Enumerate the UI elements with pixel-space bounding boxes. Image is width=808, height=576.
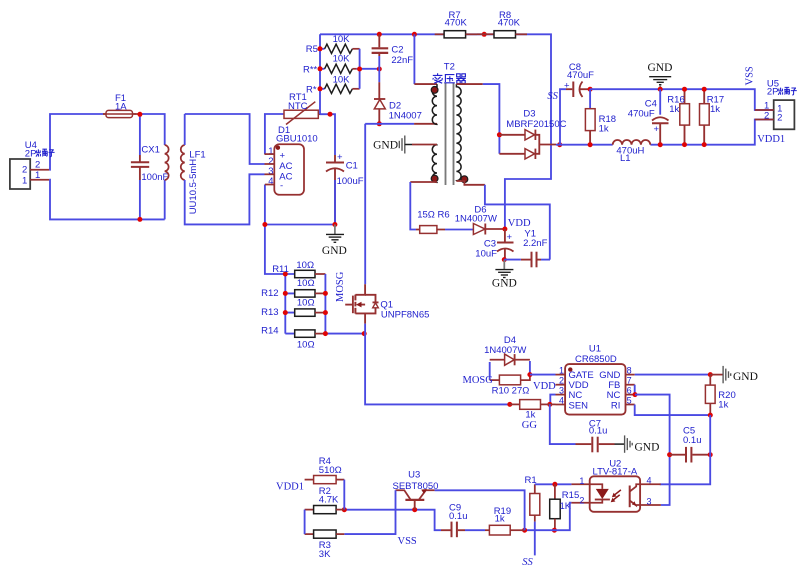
- net label VDD at U1 pin2: [533, 381, 556, 392]
- junction R14 right: [323, 331, 328, 336]
- junction R20 bottom: [708, 413, 713, 418]
- svg-text:U1: U1: [589, 344, 601, 355]
- svg-text:4: 4: [559, 396, 564, 406]
- R5/R**/R* divider left rail wire: [320, 34, 325, 114]
- junction D3 anodes: [497, 132, 502, 137]
- svg-text:+: +: [337, 152, 343, 163]
- resistor R3 3K: [305, 530, 345, 560]
- resistor R11 10Ω: [272, 260, 325, 278]
- capacitor C7 0.1u: [576, 418, 615, 452]
- wire output top rail: [590, 89, 774, 110]
- svg-text:2: 2: [579, 495, 584, 505]
- junction R16 bottom: [682, 142, 687, 147]
- svg-text:1N4007: 1N4007: [389, 110, 422, 121]
- capacitor C1: [326, 152, 364, 225]
- capacitor C5 0.1u: [670, 426, 711, 463]
- label U5 chinese 2P端子: [767, 87, 797, 98]
- svg-text:MOSG: MOSG: [463, 375, 494, 386]
- svg-text:22nF: 22nF: [391, 55, 413, 66]
- svg-text:1k: 1k: [495, 514, 505, 525]
- svg-text:1A: 1A: [115, 101, 127, 112]
- capacitor C2 22nF: [372, 34, 414, 69]
- svg-text:470uF: 470uF: [628, 108, 655, 119]
- svg-text:10Ω: 10Ω: [297, 278, 315, 289]
- svg-text:1N4007W: 1N4007W: [455, 214, 497, 225]
- wire RI net down to U2 pin4: [660, 415, 711, 484]
- capacitor C4 470uF: [628, 89, 669, 145]
- capacitor C9 0.1u: [441, 502, 485, 537]
- wire D2 bottom to Q1 drain and T2 primary: [365, 124, 414, 284]
- svg-text:3: 3: [647, 497, 652, 507]
- junction R1/R15 top: [552, 482, 557, 487]
- capacitor CX1: [131, 114, 169, 219]
- bridge rectifier D1 GBU1010: [265, 125, 318, 195]
- svg-text:GND: GND: [733, 371, 758, 383]
- ground under C1: [322, 225, 347, 258]
- ground top output: [648, 62, 673, 89]
- svg-text:UU10.5-5mH: UU10.5-5mH: [188, 159, 199, 215]
- junction C1 bottom: [332, 222, 337, 227]
- svg-text:R10 27Ω: R10 27Ω: [492, 386, 530, 397]
- diode D2 1N4007: [374, 69, 422, 124]
- svg-text:510Ω: 510Ω: [319, 465, 342, 476]
- wire RT1 to C1 top: [320, 114, 335, 155]
- svg-text:VSS: VSS: [398, 536, 417, 547]
- svg-text:MOSG: MOSG: [335, 271, 346, 302]
- wire U1 pin5 to R20 bottom: [635, 405, 711, 416]
- wire U3 emitter to R19 node: [435, 490, 525, 530]
- svg-text:7: 7: [627, 376, 632, 386]
- wire top rail: [320, 34, 551, 229]
- wire U4 loop: [49, 114, 164, 219]
- resistor R1: [525, 475, 540, 521]
- resistor R2 4.7K: [305, 486, 345, 514]
- svg-text:NC: NC: [569, 390, 583, 401]
- svg-text:+: +: [507, 232, 513, 243]
- wire to U1 pin1: [530, 374, 556, 376]
- svg-text:UNPF8N65: UNPF8N65: [381, 310, 430, 321]
- svg-text:100nF: 100nF: [141, 172, 168, 183]
- svg-text:3K: 3K: [319, 549, 331, 560]
- svg-text:0.1u: 0.1u: [683, 435, 702, 446]
- svg-text:10K: 10K: [333, 75, 351, 86]
- svg-text:R13: R13: [261, 307, 278, 318]
- svg-text:1N4007W: 1N4007W: [484, 345, 526, 356]
- wire T2 secondary top to D3: [456, 84, 499, 154]
- svg-text:U3: U3: [408, 469, 420, 480]
- svg-text:1: 1: [579, 476, 584, 486]
- fuse F1: [103, 93, 140, 118]
- inductor L1 470uH: [613, 140, 651, 164]
- diode D4 1N4007W: [484, 335, 530, 380]
- svg-text:470K: 470K: [445, 17, 468, 28]
- svg-text:GND: GND: [322, 245, 347, 257]
- svg-text:D3: D3: [523, 108, 535, 119]
- wire U3 collector to VSS: [344, 490, 395, 534]
- capacitor Y1 2.2nF: [504, 228, 550, 267]
- junction R** right: [357, 67, 362, 72]
- wire U1 pin7 to pin6: [634, 385, 636, 395]
- svg-text:4.7K: 4.7K: [319, 495, 339, 506]
- junction D4/R10 right: [527, 372, 532, 377]
- wire divider right rail: [357, 49, 380, 89]
- resistor R** 10K zigzag: [303, 54, 357, 76]
- net label VDD: [508, 218, 531, 229]
- junction R12 left: [283, 291, 288, 296]
- net label VSS rotated: [744, 66, 755, 85]
- resistor R4 510Ω: [305, 456, 345, 510]
- junction top rail R7/R8: [482, 32, 487, 37]
- resistor R19 1k: [485, 506, 525, 535]
- svg-text:2P: 2P: [25, 148, 37, 159]
- svg-text:T2: T2: [444, 61, 455, 72]
- svg-text:0.1u: 0.1u: [589, 426, 608, 437]
- svg-text:+: +: [654, 124, 660, 135]
- connector U4: [10, 140, 49, 189]
- junction C5 right: [708, 452, 713, 457]
- svg-text:LF1: LF1: [189, 149, 205, 160]
- svg-text:R15: R15: [562, 490, 579, 501]
- svg-text:-: -: [280, 180, 283, 191]
- svg-text:VDD1: VDD1: [276, 482, 304, 493]
- svg-text:5: 5: [627, 396, 632, 406]
- svg-text:RI: RI: [611, 400, 621, 411]
- wire FB net down to U2 pin3: [635, 395, 670, 505]
- svg-text:10uF: 10uF: [475, 249, 497, 260]
- inductor LF1 common-mode choke: [165, 145, 206, 214]
- junction R12 right: [323, 291, 328, 296]
- svg-text:10K: 10K: [333, 54, 351, 65]
- svg-text:2: 2: [777, 113, 782, 124]
- svg-text:GND: GND: [373, 140, 398, 152]
- wire R2/R3 left: [304, 510, 306, 534]
- junction VDD node: [502, 227, 507, 232]
- wire C8 branch: [560, 89, 566, 145]
- svg-text:CR6850D: CR6850D: [575, 354, 617, 365]
- junction D2 bottom: [377, 121, 382, 126]
- junction at F1/CX1 top: [137, 112, 142, 117]
- junction R** left: [318, 66, 323, 71]
- resistor R12 10Ω: [261, 278, 325, 299]
- wire T2 primary upper bottom: [414, 123, 437, 125]
- svg-text:VSS: VSS: [744, 66, 755, 85]
- optocoupler U2 LTV-817-A: [571, 459, 661, 512]
- junction U3 base: [412, 507, 417, 512]
- net label GG: [522, 420, 538, 431]
- wire ladder right rail: [325, 274, 364, 334]
- svg-text:GG: GG: [522, 420, 538, 431]
- junction C8 right: [588, 87, 593, 92]
- junction top rail C2: [377, 32, 382, 37]
- svg-text:6: 6: [627, 386, 632, 396]
- svg-text:1k: 1k: [718, 400, 728, 411]
- junction pin6: [633, 392, 638, 397]
- svg-text:1: 1: [22, 175, 27, 186]
- svg-text:CX1: CX1: [141, 144, 159, 155]
- svg-text:1k: 1k: [669, 104, 679, 115]
- junction at CX1 bottom: [137, 217, 142, 222]
- svg-text:100uF: 100uF: [337, 176, 364, 187]
- svg-text:3: 3: [559, 386, 564, 396]
- resistor R13 10Ω: [261, 298, 325, 319]
- svg-text:MBRF20150C: MBRF20150C: [506, 119, 566, 130]
- svg-text:GND: GND: [492, 278, 517, 290]
- junction D3 output: [557, 142, 562, 147]
- resistor R10 27Ω: [490, 375, 530, 397]
- wire T2 aux bottom to R6: [410, 182, 437, 230]
- svg-text:4: 4: [647, 476, 652, 486]
- junction R20 top: [708, 372, 713, 377]
- dual diode D3 MBRF20150C: [499, 108, 566, 159]
- svg-text:2.2nF: 2.2nF: [523, 238, 547, 249]
- ground under C3: [492, 260, 517, 290]
- junction R18 bottom: [588, 142, 593, 147]
- wire T2 secondary bottom loop: [456, 181, 549, 260]
- svg-text:L1: L1: [620, 153, 631, 164]
- junction R16 top: [682, 87, 687, 92]
- wire bottom rail to C1/GND: [265, 224, 335, 226]
- resistor 1k GG: [510, 400, 556, 421]
- junction C3 bottom: [502, 257, 507, 262]
- svg-text:10Ω: 10Ω: [297, 340, 315, 351]
- resistor R7 470K: [435, 10, 477, 38]
- diode D6 1N4007W: [455, 205, 505, 235]
- capacitor C3 10uF: [475, 229, 513, 260]
- svg-text:SEN: SEN: [569, 400, 589, 411]
- resistor R17 1k: [700, 89, 725, 144]
- svg-text:R11: R11: [272, 264, 289, 275]
- svg-text:2: 2: [559, 376, 564, 386]
- junction C4 bottom: [658, 142, 663, 147]
- wire LF1 second winding loop: [185, 114, 265, 224]
- svg-text:4: 4: [268, 176, 273, 187]
- svg-text:0.1u: 0.1u: [449, 511, 468, 522]
- capacitor C8 470uF: [564, 62, 594, 97]
- net label VSS bottom: [398, 536, 417, 547]
- svg-text:R*: R*: [306, 84, 317, 95]
- svg-text:R5: R5: [306, 44, 318, 55]
- junction top rail T2: [412, 32, 417, 37]
- svg-text:10K: 10K: [333, 34, 351, 45]
- label T2 chinese 变压器: [433, 73, 466, 83]
- svg-text:1k: 1k: [525, 410, 535, 421]
- junction GG left: [507, 402, 512, 407]
- junction SEN: [547, 402, 552, 407]
- junction R17 bottom: [702, 142, 707, 147]
- svg-text:GND: GND: [635, 442, 660, 454]
- resistor R8 470K: [477, 10, 527, 38]
- ground left of T2 aux winding: [373, 136, 437, 154]
- svg-text:+: +: [280, 150, 286, 161]
- wire C9 left from R2 node: [344, 510, 441, 531]
- svg-text:470K: 470K: [498, 17, 521, 28]
- svg-text:C1: C1: [346, 161, 358, 172]
- wire U1 pin3 to SEN node: [550, 395, 555, 405]
- svg-text:15Ω R6: 15Ω R6: [417, 209, 449, 220]
- svg-text:R14: R14: [261, 326, 278, 337]
- resistor R14 10Ω: [261, 326, 325, 351]
- svg-text:LTV-817-A: LTV-817-A: [593, 467, 638, 478]
- junction R13 left: [283, 310, 288, 315]
- wire bridge pin1 to RT1: [265, 114, 284, 154]
- IC U1 CR6850D: [556, 344, 635, 415]
- svg-text:VDD: VDD: [533, 381, 556, 392]
- junction R* left: [318, 86, 323, 91]
- resistor R6 15Ω: [416, 209, 450, 233]
- junction C2/D2 mid: [377, 67, 382, 72]
- svg-text:2P: 2P: [767, 87, 779, 98]
- junction R5 left: [318, 46, 323, 51]
- svg-text:1k: 1k: [710, 104, 720, 115]
- junction C4 top: [658, 87, 663, 92]
- wire R1 bottom SS: [534, 522, 536, 556]
- junction bridge pin4 rail: [262, 222, 267, 227]
- junction R15 bottom: [552, 528, 557, 533]
- svg-text:GBU1010: GBU1010: [276, 134, 318, 145]
- svg-text:1: 1: [559, 366, 564, 376]
- junction R17 top: [702, 87, 707, 92]
- svg-text:SS: SS: [522, 557, 533, 568]
- net label VDD1 right: [757, 134, 785, 145]
- wire T2 primary top to rail: [414, 34, 437, 84]
- junction R13 right: [323, 310, 328, 315]
- svg-text:10Ω: 10Ω: [296, 260, 314, 271]
- wire ladder left rail: [285, 274, 295, 334]
- svg-text:10Ω: 10Ω: [297, 298, 315, 309]
- resistor R16 1k: [667, 89, 689, 144]
- svg-text:SS: SS: [547, 91, 558, 102]
- svg-text:NC: NC: [607, 390, 621, 401]
- svg-text:NTC: NTC: [288, 101, 308, 112]
- transistor U3 SEBT8050: [393, 469, 439, 509]
- connector U5: [755, 79, 795, 130]
- ground right of C7: [615, 435, 660, 453]
- net label MOSG rotated: [335, 271, 346, 302]
- resistor R18 1k: [585, 89, 616, 145]
- junction R19 right: [522, 528, 527, 533]
- junction RT1/C1: [328, 112, 333, 117]
- wire R1 top to U2 pin1: [535, 483, 572, 485]
- svg-text:R12: R12: [261, 288, 278, 299]
- resistor R5 10K zigzag: [306, 34, 360, 55]
- label U4 chinese 2P端子: [25, 148, 55, 159]
- net label SS top: [547, 91, 558, 102]
- junction Q1 source: [362, 331, 367, 336]
- net label MOSG at R10: [463, 375, 494, 386]
- svg-text:GND: GND: [648, 62, 673, 74]
- svg-text:8: 8: [627, 366, 632, 376]
- svg-text:2: 2: [22, 165, 27, 176]
- resistor R15 1K: [550, 484, 580, 530]
- wire Q1 source to SEN: [365, 324, 510, 405]
- svg-text:R**: R**: [303, 64, 318, 75]
- transformer T2: [431, 61, 468, 185]
- net label SS bottom: [522, 557, 533, 568]
- wire R6 to D6: [445, 229, 473, 231]
- wire bridge pin4 down: [265, 185, 285, 275]
- wire SEN node to C7: [550, 404, 576, 444]
- thermistor RT1: [283, 92, 320, 125]
- junction R2/R4: [342, 507, 347, 512]
- net label VDD1 bottom: [276, 482, 304, 493]
- svg-text:+: +: [564, 80, 570, 91]
- ground right of U1 pin8: [710, 366, 758, 383]
- junction C5 left: [667, 452, 672, 457]
- transistor Q1 UNPF8N65: [345, 284, 429, 323]
- wire output bottom rail: [556, 120, 774, 145]
- svg-text:1k: 1k: [599, 124, 609, 135]
- svg-text:470uF: 470uF: [567, 70, 594, 81]
- wire U1 pin8 to GND: [635, 374, 711, 376]
- svg-text:VDD1: VDD1: [757, 134, 785, 145]
- junction R11 left: [283, 272, 288, 277]
- wire bottom feedback row to U2 pin2: [525, 503, 572, 531]
- resistor R20 1k: [705, 375, 735, 416]
- resistor R* 10K zigzag: [306, 75, 360, 96]
